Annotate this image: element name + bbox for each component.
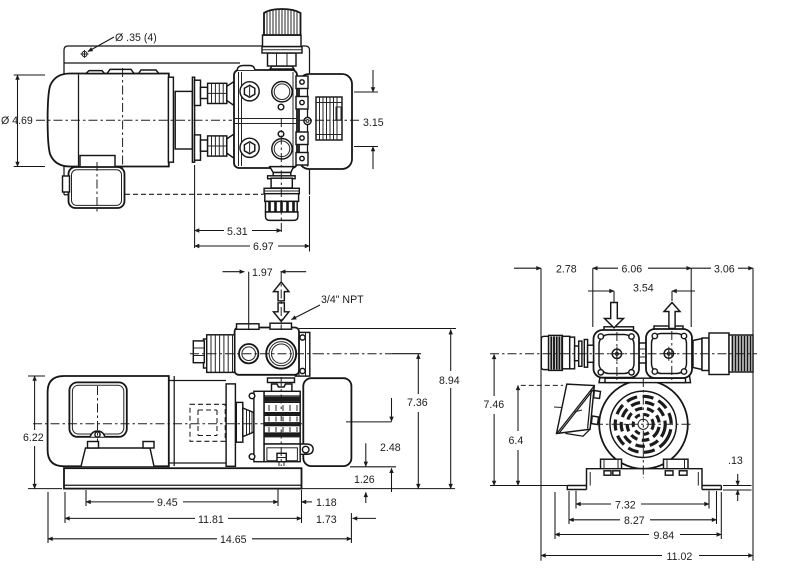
svg-text:2.78: 2.78 [556,264,577,276]
motor fins [86,69,159,73]
drain centerline [280,118,282,235]
centerline side pump [190,353,315,355]
eyelet right [304,117,311,124]
small bolts [278,104,284,110]
6.22 [28,376,62,489]
5.31 dimension [194,165,196,248]
dia 4.69 dimension [14,75,45,167]
bracket band [605,378,686,382]
left knob [541,336,548,369]
long ext lines [541,268,753,561]
cone [243,408,254,437]
svg-text:9.84: 9.84 [654,530,675,542]
sight circle [244,348,254,359]
svg-text:6.97: 6.97 [253,241,274,253]
port upper [272,82,292,102]
junction box top view [69,167,125,208]
6.97 dimension [309,196,311,252]
svg-text:7.46: 7.46 [484,399,505,411]
svg-text:7.32: 7.32 [615,500,636,512]
port circle big [266,339,296,369]
hex plug lower [240,138,259,157]
left head [594,330,640,378]
hollow arrow up [274,282,289,301]
svg-text:7.36: 7.36 [407,397,428,409]
svg-text:2.48: 2.48 [380,442,401,454]
left head hump [604,327,634,332]
head right hinge tabs [296,76,308,89]
svg-text:Ø .35 (4): Ø .35 (4) [115,32,157,44]
3.06 [691,267,711,269]
8.27 [569,519,620,521]
tilted box [557,384,595,433]
right head hump [654,326,683,331]
head mount plate [254,391,264,461]
fin stack [264,391,300,444]
motor end bell [168,77,173,162]
junction box left tab [63,176,70,192]
pump adapter [175,91,192,149]
feet bolt tabs [604,471,611,475]
mounting hole [82,51,87,56]
motor side [48,376,169,466]
junction box side [69,382,126,436]
9.84 [555,534,649,536]
svg-text:6.4: 6.4 [509,435,524,447]
bottom ext lines [555,491,721,539]
2.78 [514,267,541,269]
right knob [693,339,702,370]
6.06 [593,267,618,269]
head neck [268,378,295,383]
11.02 [541,555,662,557]
svg-text:11.02: 11.02 [667,551,693,563]
head block side [235,328,299,375]
tank side [303,378,351,466]
svg-text:1.26: 1.26 [354,474,375,486]
9.45 [86,501,154,503]
centerlines front [490,353,757,355]
junction box centerline [96,162,98,213]
svg-text:1.97: 1.97 [252,267,273,279]
relief valve knob (top) [270,66,294,69]
1.26 [350,466,396,468]
svg-text:3/4" NPT: 3/4" NPT [321,294,364,306]
7.32 [576,503,611,505]
left base ext [490,485,567,487]
svg-text:6.22: 6.22 [23,432,44,444]
6.4 [521,384,563,386]
svg-text:5.31: 5.31 [227,226,248,238]
1.18 [302,501,313,503]
bell disc [236,402,243,442]
svg-text:8.27: 8.27 [624,515,645,527]
motor centerline vertical [122,68,124,172]
left knurl cap side [204,339,209,368]
discharge fitting (lower) [195,135,201,160]
drain valve (bottom) [270,167,294,173]
11.81 [65,517,195,519]
1.73 [353,517,377,519]
svg-text:1.18: 1.18 [316,497,337,509]
hidden coupling [190,404,225,441]
svg-text:14.65: 14.65 [220,534,247,546]
port lower [272,139,292,159]
7.36 [315,353,392,355]
center column between heads [637,343,649,363]
motor feet [601,459,622,469]
ear tab [300,444,313,454]
right bracket behind head [295,332,310,376]
svg-text:9.45: 9.45 [157,497,178,509]
hex plug upper [240,82,259,101]
3.54 [614,291,672,302]
svg-text:Ø 4.69: Ø 4.69 [1,115,33,127]
hollow arrow up (right head) [664,303,680,329]
junction box neck [80,156,115,168]
pump flange band [226,384,235,466]
svg-text:3.15: 3.15 [363,117,384,129]
pump head block top view [234,70,297,168]
mounting plate edge [192,77,194,162]
svg-text:6.06: 6.06 [622,264,643,276]
centerline main top view [36,119,232,121]
hole leader [88,37,114,52]
NPT leader [292,305,321,320]
hollow arrow down [274,303,289,322]
svg-text:8.94: 8.94 [439,375,460,387]
base channel [567,469,721,490]
ext top 8.94 [299,328,456,330]
.13 [723,486,752,491]
svg-text:1.73: 1.73 [316,514,337,526]
support arms [599,372,628,383]
3.15 dimension [354,92,378,147]
1.97 dim [223,271,245,273]
suction fitting (upper) [195,80,201,105]
svg-text:.13: .13 [728,455,743,467]
svg-text:11.81: 11.81 [198,514,224,526]
motor circle [599,380,688,469]
pump adapter side [169,381,226,464]
plate bottom ext right [302,488,456,490]
fan grill [610,391,676,457]
7.46 [493,354,495,365]
hidden plate edge dashed [125,193,264,195]
base plate top view [64,46,310,76]
2.48 [346,398,392,422]
motor foot [81,448,154,466]
svg-text:3.06: 3.06 [714,264,735,276]
svg-text:3.54: 3.54 [633,283,654,295]
bottom box [264,444,300,462]
hollow arrow down (left head) [605,303,624,328]
motor top view [48,74,169,167]
head top ear [237,66,255,71]
right head [646,329,692,378]
relief valve body (right) [299,74,352,169]
14.65 [48,538,217,540]
bottom dim ext lines [48,488,351,543]
stack top bracket [272,384,292,391]
base plate side [64,468,302,488]
